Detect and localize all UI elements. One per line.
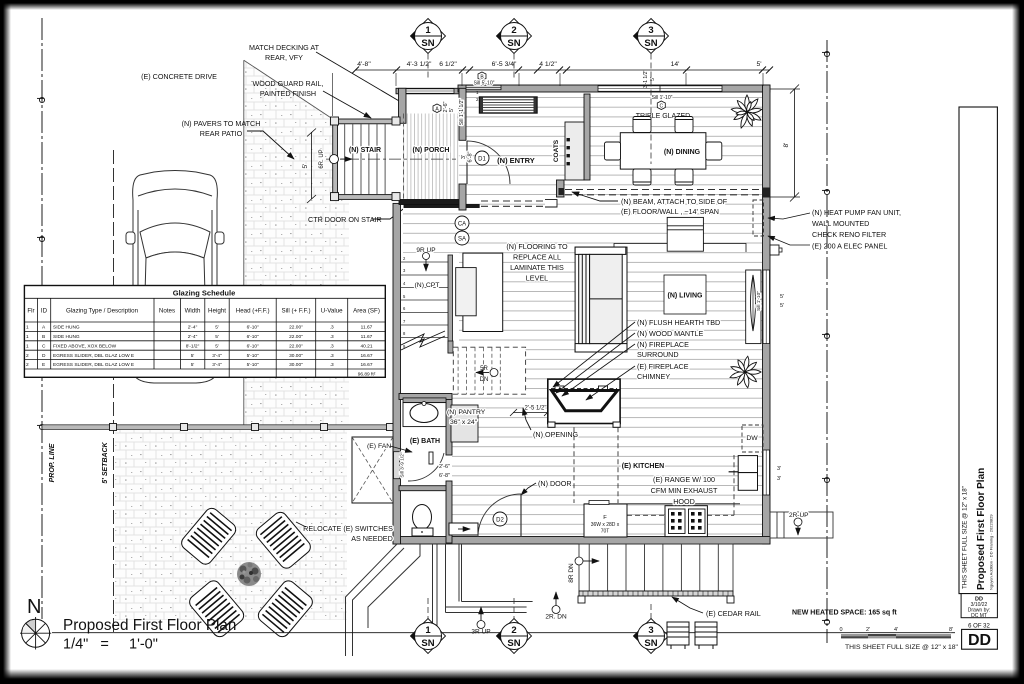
svg-text:Sill 1'-10": Sill 1'-10" [756,291,762,311]
svg-text:(E) FIREPLACE: (E) FIREPLACE [637,362,689,371]
car body [133,171,218,384]
left wall [393,203,401,544]
DW dashed box [742,425,763,452]
svg-text:8': 8' [783,143,790,148]
bench/window seat [480,97,538,113]
marker 2 SN [496,19,532,81]
cedar rail [579,591,733,596]
window kitchen (right wall) [763,450,770,495]
svg-text:6 1/2": 6 1/2" [439,61,457,68]
svg-text:E: E [42,362,45,368]
svg-text:2'-4": 2'-4" [188,334,198,340]
svg-text:11.67: 11.67 [361,325,373,331]
heat pump unit [762,188,770,198]
svg-text:5': 5' [780,294,784,300]
svg-text:3: 3 [648,25,653,36]
deck walkway angled edge [346,544,421,656]
svg-text:2: 2 [511,625,516,636]
svg-text:6'-10": 6'-10" [247,343,260,349]
bath/toilet divider wall [399,486,446,491]
svg-text:5R: 5R [480,366,488,372]
scale bar [839,627,953,638]
svg-text:1/4" = 1'-0": 1/4" = 1'-0" [63,637,158,653]
tread numbers [403,256,406,349]
svg-text:5'-10": 5'-10" [247,353,260,359]
range box [665,506,707,537]
rail end posts [578,596,585,603]
svg-text:8R DN: 8R DN [568,563,575,583]
svg-text:6'-8": 6'-8" [468,151,474,162]
coat hooks [567,138,570,165]
svg-text:2: 2 [26,353,29,359]
landing steps [446,602,533,613]
bath sink counter [403,403,446,427]
toilet [413,505,432,530]
section line survey symbols [822,51,830,624]
property line survey markers [37,97,45,429]
svg-text:3': 3' [461,155,467,159]
svg-text:4': 4' [894,627,898,633]
hearth blocks [555,386,564,391]
svg-text:(E) FLOOR/WALL , ~14' SPAN: (E) FLOOR/WALL , ~14' SPAN [621,207,719,216]
svg-text:U-Value: U-Value [321,308,343,315]
svg-text:(N) HEAT PUMP FAN UNIT,: (N) HEAT PUMP FAN UNIT, [812,208,901,217]
switches leader [296,522,306,527]
svg-text:SN: SN [421,38,434,49]
stair zone white [399,253,459,395]
svg-text:(E) KITCHEN: (E) KITCHEN [622,463,664,470]
svg-text:Flr: Flr [27,308,34,315]
svg-text:SN: SN [644,638,657,649]
svg-text:F: F [603,515,607,521]
bath top wall [403,398,446,403]
svg-text:N: N [27,596,41,618]
svg-text:1: 1 [425,25,431,36]
svg-text:D: D [42,353,46,359]
svg-text:Head (+F.F.): Head (+F.F.) [236,308,270,315]
plant middle right [729,356,761,388]
svg-text:36" x 24": 36" x 24" [450,419,478,426]
sofa [575,247,627,352]
witness line stair corner [332,73,334,116]
svg-text:(E) FAN: (E) FAN [367,443,391,450]
svg-text:4'-8": 4'-8" [357,61,371,68]
paver walk below stair to house [333,200,349,427]
svg-text:CTR DOOR ON STAIR: CTR DOOR ON STAIR [308,215,382,224]
paver patio lower [115,430,347,620]
leader pavers [247,131,294,159]
svg-text:C: C [42,343,46,349]
svg-text:DN: DN [480,377,489,383]
svg-text:Notes: Notes [159,308,175,315]
svg-text:CFM MIN EXHAUST: CFM MIN EXHAUST [651,486,718,495]
porch right wall (entry divider) [459,88,466,140]
fireplace legs [548,422,555,427]
heat pump dashed box [753,200,764,236]
svg-text:REPLACE ALL: REPLACE ALL [513,253,561,262]
svg-text:2'-5 1/2": 2'-5 1/2" [525,406,547,412]
svg-text:REAR PATIO: REAR PATIO [200,129,243,138]
svg-text:5': 5' [215,325,219,331]
svg-text:(N) FIREPLACE: (N) FIREPLACE [637,340,689,349]
svg-text:2R. DN: 2R. DN [545,614,567,621]
svg-text:5': 5' [650,77,656,81]
stair stringer wall [448,255,453,353]
svg-text:8': 8' [949,627,953,633]
svg-text:WALL MOUNTED: WALL MOUNTED [812,219,869,228]
svg-text:Nguyen Addition - DD Framing -: Nguyen Addition - DD Framing - 20220829 [989,514,994,590]
fireplace outer box [548,379,620,423]
bath right wall lower [446,481,452,543]
top wall porch section [396,88,462,94]
opening leader [523,408,531,430]
fence posts [110,424,394,431]
heat pump leader [768,213,810,219]
north compass [20,617,51,650]
bottom datum line [52,632,955,634]
svg-text:(E) RANGE W/ 100: (E) RANGE W/ 100 [653,475,715,484]
stair rails gray [333,119,397,199]
top wall main [458,85,770,92]
entry+dining wood floor [403,94,762,195]
svg-text:1: 1 [26,325,29,331]
svg-text:(N) PANTRY: (N) PANTRY [447,409,486,416]
fireplace leaders [553,322,635,400]
bottom wall [393,537,770,545]
lounge chair 1 (upper left) [179,506,239,567]
D2 circle [493,512,507,526]
svg-text:6'-10": 6'-10" [247,334,260,340]
dim labels [357,61,761,68]
6R UP circle [330,155,339,164]
center bush [237,562,261,586]
svg-text:22.00": 22.00" [289,334,303,340]
fireplace leader notes [637,318,720,381]
svg-text:(N) BEAM, ATTACH TO SIDE OF: (N) BEAM, ATTACH TO SIDE OF [621,197,728,206]
svg-text:3'-4": 3'-4" [212,353,222,359]
(N) LIVING label box [664,275,706,314]
svg-text:(E) BATH: (E) BATH [410,438,440,445]
counter line [584,503,740,505]
hexagon C symbol [657,101,665,110]
marker 1 SN bottom [410,598,446,654]
svg-text:6'-5 3/4": 6'-5 3/4" [492,61,517,68]
svg-text:5': 5' [215,343,219,349]
car mirrors [126,232,135,244]
marker 1 SN [410,19,446,81]
svg-text:22.00": 22.00" [289,343,303,349]
svg-text:REAR, VFY: REAR, VFY [265,53,303,62]
svg-text:SIDE HUNG: SIDE HUNG [53,334,80,340]
svg-text:SURROUND: SURROUND [637,350,679,359]
svg-text:(N) DOOR: (N) DOOR [538,479,572,488]
dining table [620,133,706,169]
svg-text:SIDE HUNG: SIDE HUNG [53,325,80,331]
ledge line right [703,244,746,253]
svg-text:(N) PAVERS TO MATCH: (N) PAVERS TO MATCH [182,119,261,128]
svg-text:SA: SA [458,237,466,243]
5' dim stair [307,129,316,204]
8' dim right [770,85,800,202]
svg-text:Sill (+ F.F.): Sill (+ F.F.) [281,308,310,315]
svg-text:(E) 200 A ELEC PANEL: (E) 200 A ELEC PANEL [812,242,887,251]
hearth dashed line [551,388,617,390]
window A porch [406,89,454,94]
fan leader [390,446,412,452]
car hood line [138,189,212,196]
svg-text:Proposed First Floor Plan: Proposed First Floor Plan [976,468,987,590]
stair upper treads [400,262,448,338]
porch left wall stub [399,88,407,123]
dining chairs [605,117,722,186]
lower flight treads [458,347,500,394]
svg-text:WOOD GUARD RAIL,: WOOD GUARD RAIL, [252,79,323,88]
svg-text:3': 3' [777,466,781,472]
svg-text:COATS: COATS [553,139,560,162]
svg-text:CHIMNEY: CHIMNEY [637,372,670,381]
svg-text:2: 2 [511,25,516,36]
stair rail end posts [331,117,401,201]
table body [24,286,385,378]
svg-text:(N) LIVING: (N) LIVING [668,293,704,300]
porch dashed edge [403,114,405,200]
svg-text:Height: Height [208,308,226,315]
svg-text:SN: SN [644,38,657,49]
leader match decking [316,52,411,108]
(N) FLOORING note [506,242,568,283]
leader wood guard rail [323,91,371,118]
svg-text:5'-10": 5'-10" [247,362,260,368]
svg-text:DD: DD [968,632,991,649]
stair treads [345,124,385,195]
svg-text:14': 14' [671,61,680,68]
marker 2 SN bottom [496,598,532,654]
opening dashes (fireplace to counter) [573,427,575,503]
svg-text:LEVEL: LEVEL [526,274,548,283]
svg-text:6'-10": 6'-10" [247,325,260,331]
svg-text:16.67: 16.67 [360,362,372,368]
svg-text:CA: CA [458,222,466,228]
svg-text:HOOD: HOOD [673,497,695,506]
door D2 leaf [520,494,522,537]
svg-text:5': 5' [780,303,784,309]
tall box [959,107,997,594]
bath window left wall [394,452,400,479]
svg-text:FIXED ABOVE, XOX BELOW: FIXED ABOVE, XOX BELOW [53,343,117,349]
svg-text:SN: SN [507,638,520,649]
border shadow fades [3,3,11,679]
bath right wall upper [446,394,452,455]
lounge chair 3 (lower left) [187,578,247,639]
svg-text:AS NEEDED: AS NEEDED [351,534,393,543]
svg-text:5': 5' [215,334,219,340]
svg-text:2': 2' [866,627,870,633]
svg-text:6 OF 32: 6 OF 32 [968,623,990,629]
ledge end cap [545,200,557,207]
marker 3 SN bottom [633,604,669,654]
lounge chair 2 (upper right) [253,510,313,571]
svg-text:5': 5' [191,353,195,359]
svg-text:Width: Width [185,308,201,315]
svg-text:36W x 28D x: 36W x 28D x [591,522,620,528]
svg-text:D2: D2 [496,518,504,524]
svg-text:5' SETBACK: 5' SETBACK [102,441,109,483]
svg-text:PAINTED FINISH: PAINTED FINISH [260,89,316,98]
armchair [463,253,503,331]
data rows [26,325,134,369]
paver strip upper (N pavers area) [244,60,349,427]
window B entry [466,85,501,90]
wall stub entry/dining [557,180,565,197]
window E living (right wall) [763,270,770,344]
living+kitchen wood floor [403,195,762,536]
svg-text:(N) STAIR: (N) STAIR [349,147,381,154]
car windshield [140,223,210,258]
svg-text:6'-8": 6'-8" [439,473,450,479]
svg-text:(N) WOOD MANTLE: (N) WOOD MANTLE [637,329,703,338]
stool 1 [667,622,689,649]
svg-text:B: B [42,334,45,340]
svg-text:Sill 1'-1 1/2": Sill 1'-1 1/2" [459,99,465,126]
svg-text:MATCH DECKING AT: MATCH DECKING AT [249,43,320,52]
paver area top edge line [244,60,333,119]
column lines [38,298,348,377]
svg-text:(N) OPENING: (N) OPENING [533,430,579,439]
svg-text:1: 1 [425,625,431,636]
svg-text:Area (SF): Area (SF) [353,308,380,315]
property line [41,18,43,619]
svg-text:RELOCATE (E) SWITCHES: RELOCATE (E) SWITCHES [303,524,393,533]
svg-text:THIS SHEET FULL SIZE @ 12" x 1: THIS SHEET FULL SIZE @ 12" x 18" [962,486,969,589]
lounge chair 4 (lower right) [255,578,315,639]
svg-text:D1: D1 [478,157,486,163]
svg-text:30.00": 30.00" [289,362,303,368]
lower flight dashed box [453,347,525,394]
D1 circle [475,151,489,165]
rear stair treads [579,544,733,591]
svg-text:3: 3 [648,625,653,636]
svg-text:3'-1 1/2": 3'-1 1/2" [643,70,649,89]
window E bay with plant [746,270,761,344]
porch upper white [403,94,459,114]
svg-text:EGRESS SLIDER, DBL GLAZ LOW E: EGRESS SLIDER, DBL GLAZ LOW E [53,362,134,368]
svg-text:NEW HEATED SPACE: 165 sq ft: NEW HEATED SPACE: 165 sq ft [792,610,897,617]
stair centerline [326,158,456,160]
right deck 2R UP [770,512,833,538]
window C dining [598,86,722,92]
svg-text:Glazing Type / Description: Glazing Type / Description [66,308,139,315]
svg-text:DC MT: DC MT [971,613,987,619]
svg-text:5': 5' [302,164,309,169]
cedar rail leader [672,597,703,613]
door D2 arc [478,494,521,537]
marker 3 SN [633,19,669,165]
svg-text:CHECK RENO FILTER: CHECK RENO FILTER [812,230,886,239]
svg-text:Sill 5'-10": Sill 5'-10" [474,81,495,87]
wall stub at stair base [448,341,453,353]
svg-text:70T: 70T [601,529,610,535]
svg-text:PROP. LINE: PROP. LINE [49,443,56,482]
pantry box [451,405,478,442]
ledge under porch [399,200,460,205]
svg-text:2'-6": 2'-6" [439,464,450,470]
car roof [144,252,206,335]
svg-text:ID: ID [41,308,48,315]
svg-text:3': 3' [777,476,781,482]
firebox trapezoid [552,391,618,411]
svg-text:EGRESS SLIDER, DBL GLAZ LOW E: EGRESS SLIDER, DBL GLAZ LOW E [53,353,134,359]
porch deck [403,114,459,200]
dim ticks [352,67,773,74]
elec panel fixture [770,245,779,255]
fence line [42,425,393,430]
svg-text:1: 1 [26,334,29,340]
svg-text:5': 5' [449,108,455,112]
upper cab dashed [627,514,734,516]
porch door D1 arc [467,141,510,184]
svg-text:Sill 3'-9 1/2": Sill 3'-9 1/2" [400,452,406,478]
svg-text:5': 5' [191,362,195,368]
hexagon A symbol [433,101,455,112]
plant top right corner [731,95,762,129]
svg-text:(E) CONCRETE DRIVE: (E) CONCRETE DRIVE [141,72,217,81]
svg-text:C: C [659,104,663,110]
break line [401,331,445,345]
leaf plant in bay [751,275,756,331]
car side lines [137,210,139,330]
svg-text:DW: DW [746,435,758,442]
kitchen sink [738,456,757,473]
svg-text:.3: .3 [330,343,334,349]
right wall [763,85,771,544]
svg-text:3'-4": 3'-4" [212,362,222,368]
svg-text:.3: .3 [330,353,334,359]
SA symbol [455,231,469,245]
svg-text:Proposed First Floor Plan: Proposed First Floor Plan [63,617,236,634]
beam dashed lines [565,189,762,191]
svg-text:0: 0 [839,627,842,633]
console table [667,217,703,251]
svg-text:SN: SN [421,638,434,649]
fridge [584,504,627,537]
bath zone white [399,390,452,536]
svg-text:(N) PORCH: (N) PORCH [413,147,450,154]
9R UP arrow down [425,257,427,271]
beam leader [572,192,618,201]
bath sink bowl [410,404,438,423]
svg-text:96.89 ft²: 96.89 ft² [358,371,376,377]
svg-text:6R. UP: 6R. UP [319,149,325,168]
hall/pantry wall [399,394,452,400]
svg-text:(N) DINING: (N) DINING [664,149,701,156]
svg-text:(N) CPT: (N) CPT [415,282,440,289]
landing rails vertical [433,544,462,632]
svg-text:5': 5' [756,61,761,68]
svg-text:Glazing Schedule: Glazing Schedule [173,289,236,298]
stool 2 [695,622,717,649]
svg-text:(E) CEDAR RAIL: (E) CEDAR RAIL [706,609,761,618]
bath door arc [408,453,444,481]
svg-text:1: 1 [26,343,29,349]
entry/dining wall + coats closet [584,94,590,180]
row lines [24,298,385,369]
svg-text:(N) FLOORING TO: (N) FLOORING TO [506,242,568,251]
dimension line [355,69,770,71]
ledge line left [614,244,667,248]
DD box [962,629,998,649]
(E) FAN closet outside [352,437,393,503]
svg-text:2'-4": 2'-4" [188,325,198,331]
